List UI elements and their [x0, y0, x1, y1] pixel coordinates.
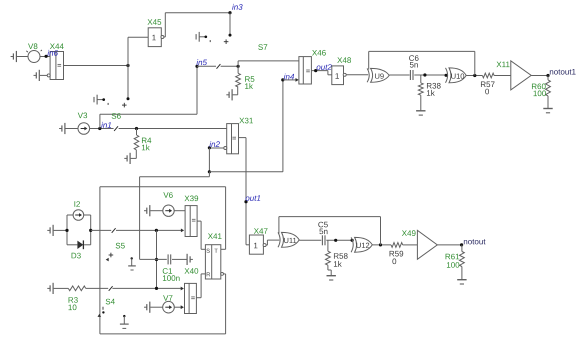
ground (R3)	[47, 283, 68, 294]
wire loop top (to X41 T)	[100, 187, 226, 250]
switch S4 blade	[109, 286, 113, 291]
label S4	[106, 299, 115, 305]
ground (V8 source)	[11, 51, 29, 62]
wire loop left vertical	[99, 187, 101, 334]
resistor R60 100	[532, 76, 550, 109]
junction U12 input	[351, 239, 354, 242]
junction C5/R58	[334, 239, 337, 242]
wire in3 stub down	[229, 13, 232, 37]
switch S5 blade	[112, 228, 116, 233]
xor gate U12	[351, 237, 372, 252]
ground (V7)	[144, 302, 163, 313]
buffer X11	[496, 61, 531, 90]
wire U10 output	[466, 75, 482, 77]
voltage source V8	[26, 43, 42, 62]
junction R3 row / C1 column	[155, 287, 158, 290]
voltage source V3	[78, 113, 90, 135]
resistor R58 1k	[326, 240, 348, 275]
wire S5 row left	[91, 229, 112, 231]
subcircuit X44	[50, 44, 64, 80]
node in3	[228, 4, 242, 14]
xor gate U11	[278, 232, 299, 247]
wire S6 riser	[99, 114, 101, 128]
label S7	[258, 44, 267, 50]
junction R5 top	[237, 65, 240, 68]
wire V3 to in1	[90, 128, 114, 130]
wire to X45 input	[128, 37, 148, 65]
switch S6 blade	[114, 126, 118, 131]
resistor R4 1k	[131, 129, 152, 159]
subcircuit X39	[184, 196, 198, 237]
resistor R57 0	[481, 73, 495, 94]
wire X11 output	[531, 75, 548, 77]
voltage source V7	[163, 295, 175, 313]
current source I2	[73, 201, 84, 220]
junction in2-in4 link	[208, 170, 211, 173]
wire X39 output to X41 S	[197, 221, 205, 249]
junction R4 top	[135, 127, 138, 130]
ground (R61)	[457, 280, 466, 284]
wire loop bottom (to X41 out)	[100, 274, 226, 334]
resistor R61 100	[446, 245, 465, 279]
subcircuit X41 (S-T latch)	[205, 233, 223, 279]
node out2	[314, 64, 332, 72]
switch S5 control marks	[106, 253, 136, 270]
voltage source V6	[163, 192, 174, 216]
wire U12 output	[372, 244, 391, 246]
wire V8 to X44	[40, 56, 50, 58]
wire in5 row left part	[197, 65, 216, 67]
xor gate U9	[367, 68, 389, 82]
diode D3	[72, 240, 84, 258]
wire S7 run to X46	[238, 61, 299, 66]
ground (I2/D3)	[47, 225, 67, 236]
node out1	[244, 195, 260, 203]
inverter X47	[249, 228, 267, 254]
plus mark (probe)	[122, 103, 127, 108]
junction U10 input	[445, 74, 448, 77]
wire R3 to S4	[86, 287, 109, 289]
switch S7 blade	[217, 64, 221, 69]
wire U9 feedback input	[368, 51, 370, 69]
wire in2 to X31	[211, 147, 227, 150]
inverter X48	[332, 57, 351, 84]
ground (C1 right)	[187, 254, 193, 265]
wire V6 to X39	[174, 210, 185, 212]
wire C1 left	[140, 258, 167, 260]
junction C6/R38	[423, 73, 426, 76]
probe ground symbol B	[196, 32, 210, 42]
ground (V3 source)	[59, 123, 78, 134]
wire X48 output to U9	[346, 74, 368, 76]
wire link jog to C1 column	[140, 172, 210, 177]
junction C1 top	[155, 258, 158, 261]
subcircuit X31	[227, 118, 253, 154]
wire S6 run to in5 column	[100, 113, 197, 115]
capacitor C6 5n	[409, 55, 418, 80]
capacitor C5 5n	[318, 222, 327, 246]
probe ground symbol A	[94, 95, 108, 105]
wire U11 output to C5	[299, 239, 321, 241]
wire in4 column	[282, 80, 284, 172]
wire U11 feedback input	[278, 217, 280, 234]
wire in1 row to X31	[119, 128, 227, 130]
wire V7 to X40	[174, 305, 184, 309]
wire stub down to probe point	[127, 66, 130, 101]
wire X49 output	[437, 244, 461, 246]
wire C6 to U10	[414, 74, 446, 76]
wire out1 into X47	[246, 244, 249, 246]
wire feedback up (top)	[369, 51, 475, 75]
junction S5/C1 column	[155, 229, 158, 232]
wire X46 output	[311, 71, 331, 75]
node in5	[195, 59, 207, 68]
wire C1 junction column	[156, 230, 158, 288]
wire X31 output	[239, 138, 247, 245]
node in2	[208, 141, 220, 149]
plus mark (in3 probe)	[224, 39, 229, 44]
node notout1	[546, 69, 575, 77]
wire C5 to U12	[326, 239, 352, 241]
wire X44 output	[64, 65, 129, 67]
node in6	[45, 50, 58, 58]
ground (R5)	[226, 89, 232, 100]
wire in5 row right part	[221, 65, 239, 67]
subcircuit X46	[299, 50, 326, 84]
node in1	[98, 122, 111, 130]
wire in5 column	[196, 66, 198, 114]
capacitor C1 100n	[163, 254, 180, 281]
inverter X45	[147, 19, 163, 46]
wire U9 output to C6	[389, 74, 409, 76]
wire R57 to X11	[494, 75, 511, 77]
wire in4 to X46	[283, 78, 299, 82]
junction U10 output	[473, 74, 476, 77]
xor gate U10	[446, 68, 467, 83]
label S6	[112, 113, 121, 119]
buffer X49	[402, 230, 437, 259]
wire link to in4 column	[209, 171, 283, 173]
resistor R59 0	[390, 243, 404, 265]
wire parallel block frame	[65, 215, 92, 245]
node in4	[281, 74, 294, 82]
resistor R5 1k	[233, 66, 255, 95]
node notout	[460, 239, 485, 246]
subcircuit X40	[184, 268, 198, 313]
junction U12 output	[379, 243, 382, 246]
label S5	[116, 243, 125, 249]
wire X47 output to U11	[266, 240, 279, 245]
wire in2 down	[208, 148, 210, 172]
wire C1 right	[172, 258, 187, 260]
resistor R3 10	[68, 286, 85, 310]
ground (V6)	[144, 205, 163, 216]
wire X40 output to X41 R	[196, 274, 205, 298]
switch S4 control marks	[98, 307, 129, 329]
ground (R4)	[124, 153, 130, 164]
ground (R58)	[327, 276, 336, 280]
resistor R38 1k	[418, 75, 440, 110]
wire R59 to X49	[403, 244, 418, 246]
wire C1 column	[139, 177, 141, 260]
wire S4 row to X40	[112, 287, 183, 291]
junction X44 output node	[126, 64, 129, 67]
wire S5 row right	[116, 229, 184, 233]
ground (X44 lower pin)	[34, 70, 51, 81]
wire feedback up	[279, 217, 381, 245]
ground (R38)	[416, 111, 425, 115]
ground (R60)	[543, 109, 552, 113]
wire X45 output to in3	[164, 13, 230, 37]
